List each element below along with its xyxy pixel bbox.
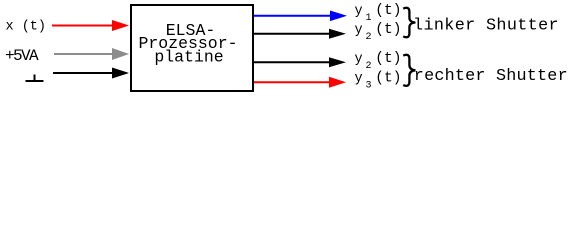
svg-text:2: 2 [366,61,372,72]
svg-text:(t): (t) [375,3,401,19]
brace rechter [403,55,415,86]
svg-text:2: 2 [366,32,372,43]
svg-text:linker Shutter: linker Shutter [413,16,559,35]
brace linker [403,8,415,38]
arrowhead input x(t) [112,20,129,31]
arrowhead input ground [112,68,129,79]
svg-text:rechter Shutter: rechter Shutter [414,67,568,86]
wire output y2 left [254,33,331,35]
svg-text:y: y [355,23,363,38]
svg-text:platine: platine [154,48,223,67]
wire input ground [53,72,114,74]
svg-text:y: y [355,4,363,19]
arrowhead output y3 [329,77,346,88]
svg-text:x (t): x (t) [6,20,47,35]
svg-text:y: y [355,72,363,87]
wire output y2 right [254,61,331,63]
wire output y3 [254,81,331,83]
wire input +5VA [54,53,114,55]
wire input x(t) [52,25,116,27]
svg-text:(t): (t) [375,71,401,87]
svg-text:(t): (t) [375,22,401,38]
svg-text:+5VA: +5VA [5,47,39,65]
svg-text:(t): (t) [375,51,401,67]
arrowhead output y1 [330,11,347,22]
arrowhead output y2 left [329,29,346,39]
svg-text:1: 1 [366,13,372,24]
wire output y1 [254,15,332,17]
arrowhead input +5VA [112,48,129,60]
arrowhead output y2 right [329,57,346,67]
svg-text:3: 3 [366,81,372,92]
processor box U1 [131,5,253,91]
ground symbol [26,75,44,83]
svg-text:y: y [355,52,363,67]
